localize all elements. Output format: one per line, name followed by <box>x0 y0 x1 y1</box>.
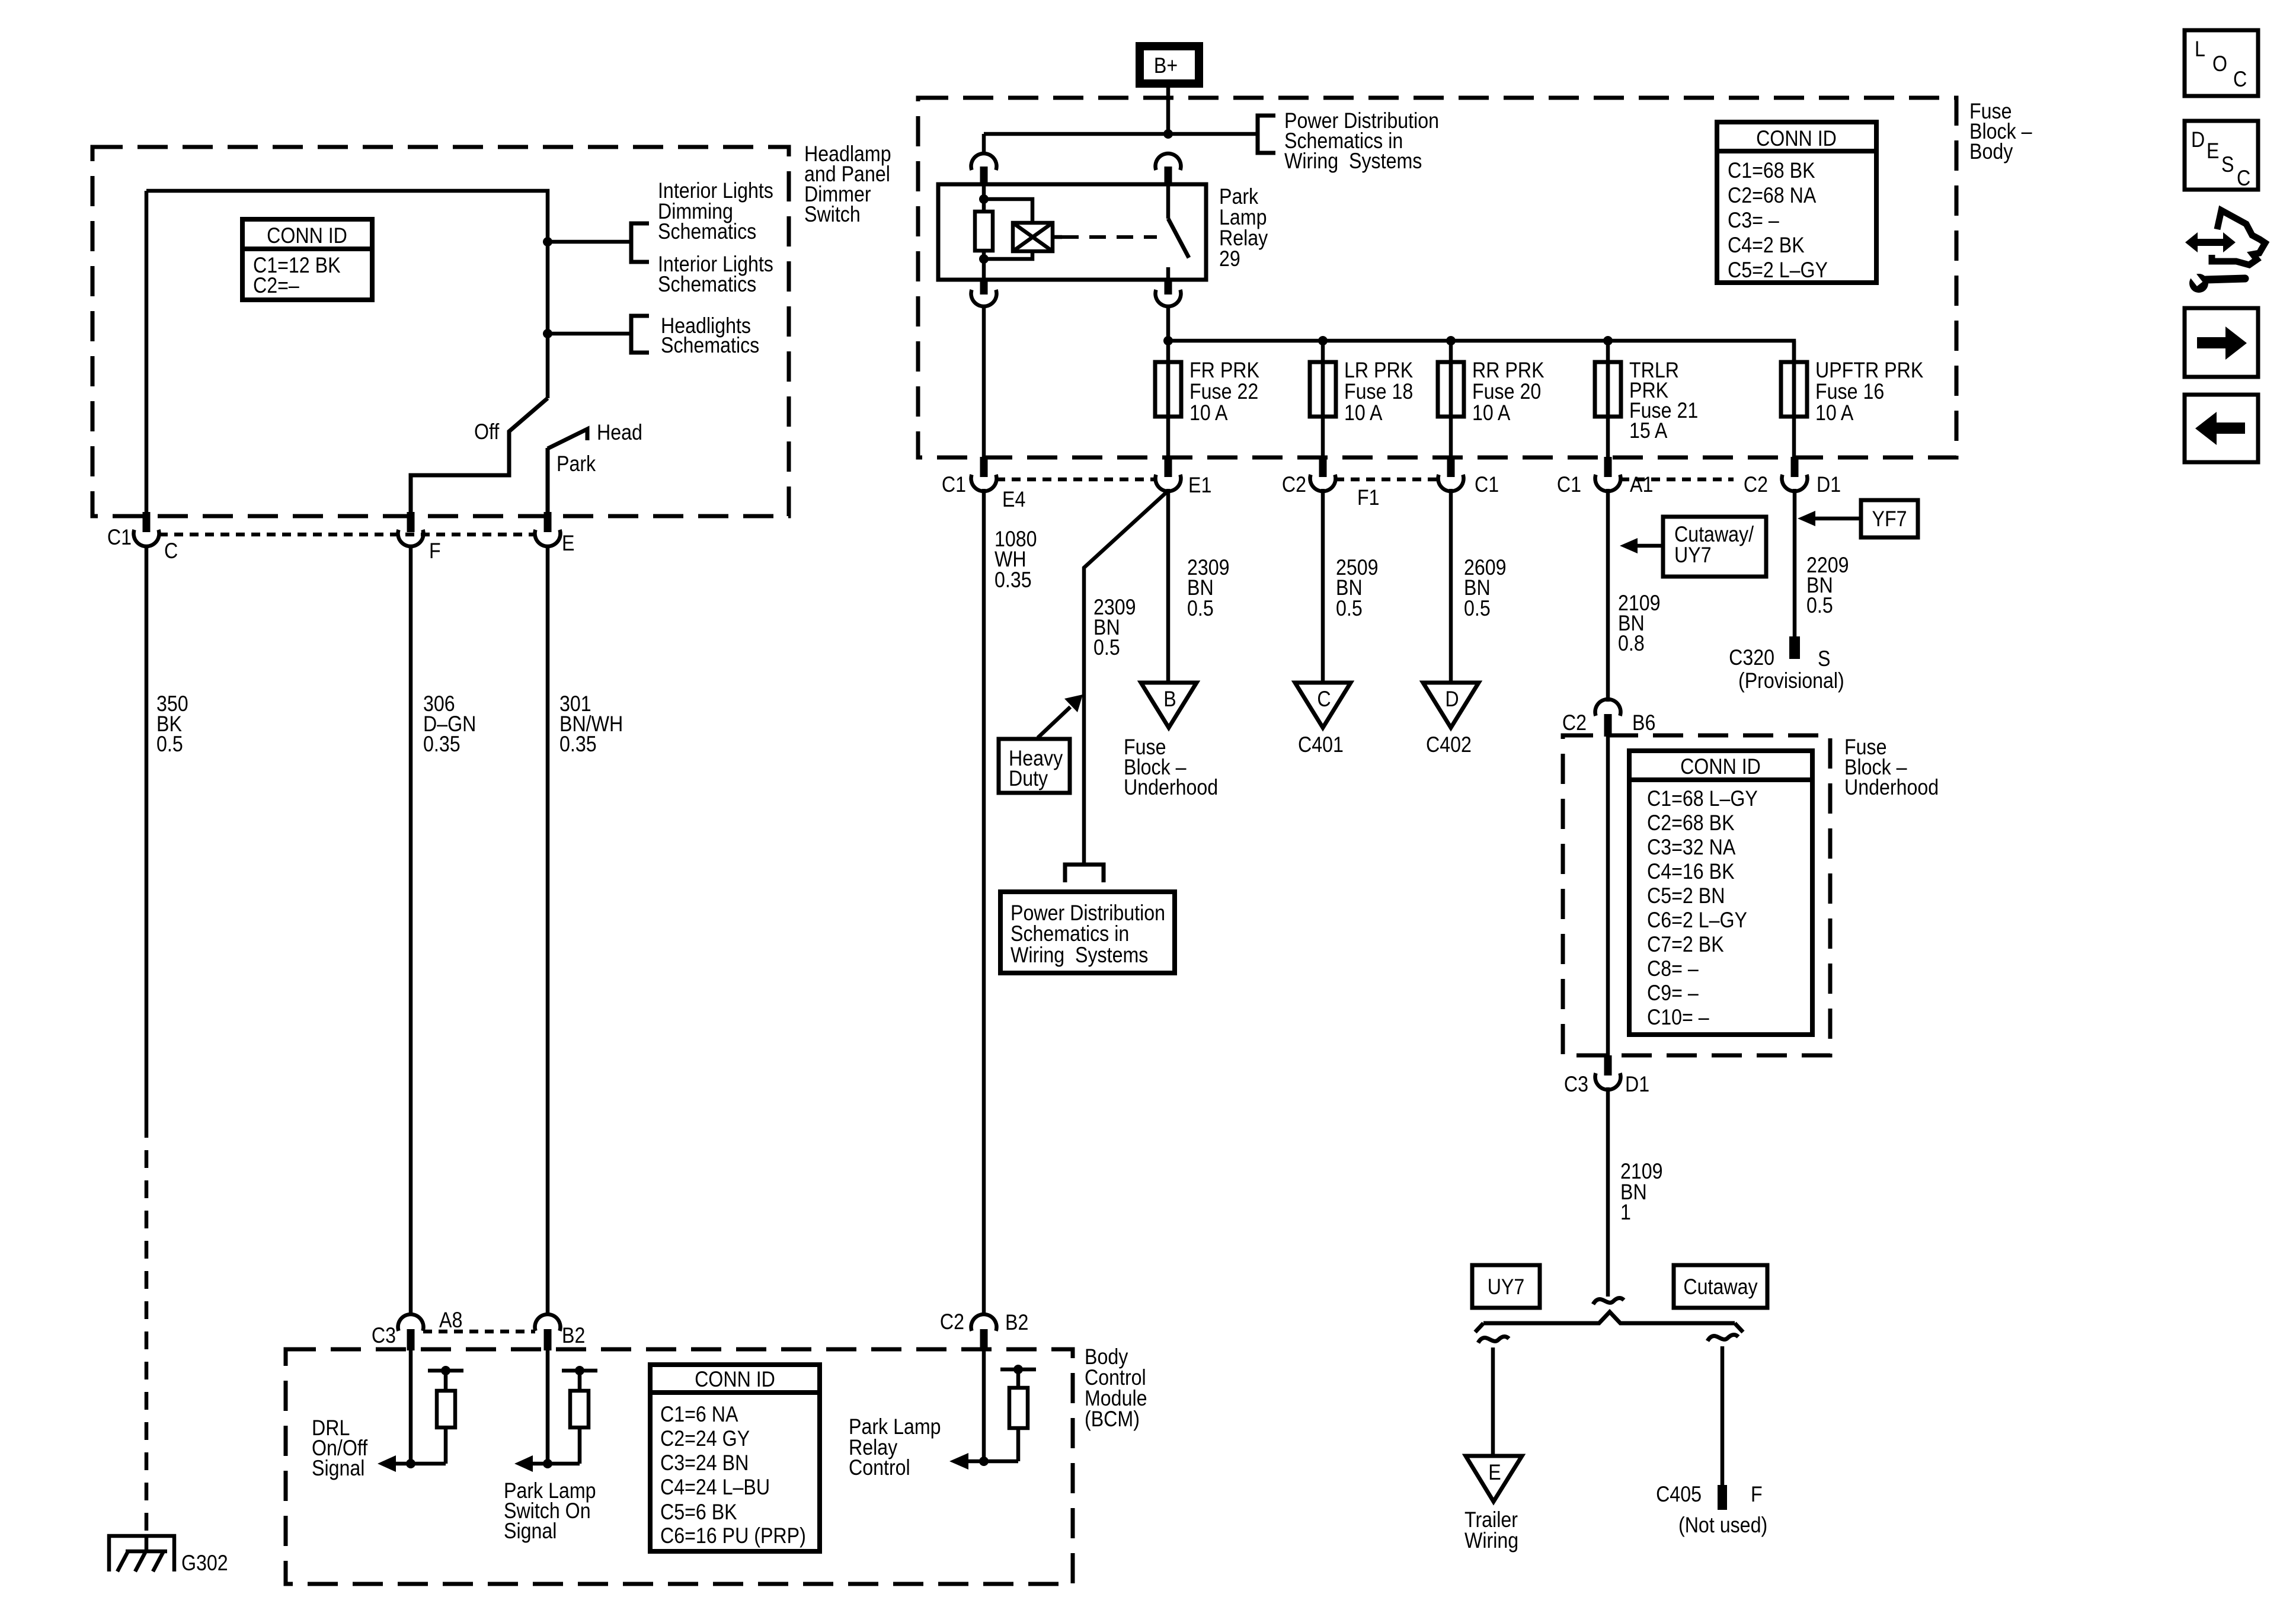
svg-text:C6=2 L–GY: C6=2 L–GY <box>1647 908 1747 933</box>
svg-text:C2=–: C2=– <box>253 274 299 298</box>
fuse RR PRK Fuse 20 10 A <box>1438 341 1544 457</box>
svg-text:Switch: Switch <box>804 203 861 227</box>
label: 2309 BN 0.5 (branch) <box>1093 596 1136 660</box>
connector cavity B2 <box>535 1314 561 1350</box>
wire: relay output right to fuse bus <box>1166 306 1171 341</box>
label: 2109 BN 1 <box>1620 1160 1663 1225</box>
svg-text:Schematics: Schematics <box>658 273 756 297</box>
off-page triangle D <box>1423 683 1479 728</box>
svg-text:E1: E1 <box>1188 473 1211 498</box>
svg-text:C2: C2 <box>1744 473 1768 497</box>
connector dashed line E4-E1 <box>996 478 1156 482</box>
connector C2 cavity F1 <box>1310 457 1336 491</box>
icon: part with arrows and wrench <box>2185 210 2265 293</box>
break symbol left branch <box>1478 1337 1509 1343</box>
label: 350 BK 0.5 <box>156 692 188 757</box>
node: junction to Headlights bracket <box>543 329 552 338</box>
CONN ID table (fuse block body) <box>1717 122 1876 283</box>
label: Park Lamp Switch On Signal <box>504 1479 596 1544</box>
svg-text:C1: C1 <box>1557 473 1581 497</box>
wire: 1080 WH from E4 to BCM C2/B2 <box>982 489 986 1316</box>
wire: 350 BK solid part <box>145 546 149 1120</box>
svg-text:Signal: Signal <box>504 1519 557 1544</box>
svg-text:C3= –: C3= – <box>1728 209 1779 233</box>
arrow: YF7 pointer <box>1798 511 1861 526</box>
Cutaway option box <box>1674 1265 1767 1308</box>
svg-text:0.8: 0.8 <box>1618 632 1645 656</box>
svg-text:C8= –: C8= – <box>1647 957 1699 981</box>
wire: top feed inside dimmer switch <box>146 191 548 398</box>
relay socket cavity (bottom left) <box>971 280 997 306</box>
svg-text:1: 1 <box>1620 1201 1631 1225</box>
node: junction to Interior Lights bracket <box>543 237 552 247</box>
off-page triangle B <box>1141 683 1197 728</box>
arrow: Cutaway/UY7 pointer <box>1620 538 1663 553</box>
svg-text:C: C <box>1317 687 1331 712</box>
YF7 callout box <box>1861 500 1918 537</box>
svg-text:C1: C1 <box>942 473 966 497</box>
svg-text:C1=6 NA: C1=6 NA <box>660 1403 738 1427</box>
svg-text:Wiring Systems: Wiring Systems <box>1284 149 1422 174</box>
svg-text:C: C <box>2233 68 2247 92</box>
wire: Cutaway branch to C405 <box>1721 1346 1725 1485</box>
svg-text:C401: C401 <box>1298 733 1344 757</box>
svg-text:(Not used): (Not used) <box>1678 1513 1767 1538</box>
label: DRL On/Off Signal <box>312 1416 368 1481</box>
svg-text:Off: Off <box>474 420 500 444</box>
svg-text:O: O <box>2212 52 2227 76</box>
bracket: power distribution reference <box>1258 116 1275 153</box>
connector C1 (RR PRK output) <box>1438 457 1464 491</box>
svg-text:C2=24 GY: C2=24 GY <box>660 1427 750 1451</box>
svg-text:D1: D1 <box>1625 1073 1649 1097</box>
CONN ID table (BCM) <box>650 1365 820 1551</box>
svg-text:10 A: 10 A <box>1189 401 1228 425</box>
connector C1 cavity E <box>535 512 561 546</box>
svg-text:E: E <box>2207 139 2219 164</box>
fuse UPFTR PRK Fuse 16 10 A <box>1781 341 1923 457</box>
Heavy Duty callout box <box>999 739 1070 793</box>
svg-text:C2: C2 <box>1562 711 1587 735</box>
Cutaway/UY7 callout box <box>1663 517 1766 577</box>
stub connector C405 F (Not used) <box>1656 1483 1767 1538</box>
svg-text:10 A: 10 A <box>1344 401 1383 425</box>
fuse LR PRK Fuse 18 10 A <box>1310 341 1413 457</box>
svg-text:C5=2 BN: C5=2 BN <box>1647 884 1725 908</box>
label: Park Lamp Relay 29 <box>1219 185 1268 271</box>
svg-text:D1: D1 <box>1817 473 1841 497</box>
svg-text:C3=24 BN: C3=24 BN <box>660 1451 749 1475</box>
svg-text:Cutaway: Cutaway <box>1683 1275 1758 1299</box>
svg-text:Wiring Systems: Wiring Systems <box>1011 943 1148 968</box>
label: 1080 WH 0.35 <box>994 527 1037 593</box>
svg-text:15 A: 15 A <box>1629 419 1668 443</box>
box: Power Distribution Schematics in Wiring Systems <box>1000 892 1175 973</box>
svg-text:CONN ID: CONN ID <box>695 1368 775 1392</box>
label: 2609 BN 0.5 <box>1464 556 1507 621</box>
svg-text:Schematics: Schematics <box>661 334 759 358</box>
connector C2 cavity B6 <box>1595 699 1621 737</box>
svg-text:F: F <box>429 539 441 564</box>
arrow: Heavy Duty pointer <box>1038 694 1083 738</box>
svg-text:C2: C2 <box>1282 473 1306 497</box>
off-page triangle C <box>1295 683 1351 728</box>
ground G302 <box>109 1536 174 1571</box>
svg-text:C320: C320 <box>1729 646 1774 670</box>
wire: relay output left to E4 <box>982 306 986 457</box>
label: Interior Lights Schematics <box>658 252 773 297</box>
svg-text:B6: B6 <box>1632 711 1655 735</box>
wire: left leg to connector C <box>145 191 149 513</box>
label: 2209 BN 0.5 <box>1806 553 1849 618</box>
svg-text:C2=68 BK: C2=68 BK <box>1647 811 1735 836</box>
svg-text:E4: E4 <box>1002 488 1025 512</box>
bracket: headlights schematics <box>631 316 649 353</box>
node: bus junction FR PRK <box>1163 336 1173 345</box>
svg-text:C4=2 BK: C4=2 BK <box>1728 233 1805 258</box>
node: bus junction RR PRK <box>1446 336 1456 345</box>
connector C1 cavity E4 <box>971 457 997 491</box>
relay box: Park Lamp Relay 29 <box>938 184 1206 280</box>
bracket: interior lights schematics pair <box>631 223 649 262</box>
svg-text:C9= –: C9= – <box>1647 981 1699 1006</box>
svg-text:RR PRK: RR PRK <box>1472 359 1544 383</box>
label: Fuse Block - Body <box>1969 100 2032 164</box>
relay solenoid (X in box) <box>1013 223 1053 251</box>
wire: 2209 BN from D1 to C320 <box>1793 489 1797 636</box>
svg-text:(Provisional): (Provisional) <box>1738 669 1844 693</box>
svg-text:Fuse 18: Fuse 18 <box>1344 380 1413 404</box>
node: bus junction TRLR PRK <box>1603 336 1613 345</box>
fuse TRLR PRK Fuse 21 15 A <box>1595 341 1698 457</box>
wire: 2309 BN branch to power distribution <box>1084 492 1167 863</box>
svg-text:D: D <box>2191 128 2205 152</box>
label: Park Lamp Relay Control <box>849 1415 941 1480</box>
icon: back arrow box <box>2185 395 2258 462</box>
svg-text:Head: Head <box>597 421 642 445</box>
label: Body Control Module (BCM) <box>1085 1345 1147 1432</box>
node: B+ bus junction <box>1163 129 1173 139</box>
svg-text:C405: C405 <box>1656 1483 1702 1507</box>
svg-text:F1: F1 <box>1357 486 1380 510</box>
stub connector C320 S (Provisional) <box>1729 636 1844 693</box>
wire: UY7 branch to trailer wiring <box>1491 1347 1495 1456</box>
wire: 2609 BN from RR to D triangle <box>1449 489 1453 683</box>
connector C1 cavity F <box>398 512 424 546</box>
connector C1 cavity E1 <box>1156 457 1181 491</box>
svg-text:0.5: 0.5 <box>1464 597 1491 621</box>
svg-text:S: S <box>2221 153 2234 177</box>
svg-text:CONN ID: CONN ID <box>1756 127 1837 151</box>
svg-text:B: B <box>1163 687 1176 712</box>
svg-text:29: 29 <box>1219 247 1240 271</box>
svg-text:Body: Body <box>1969 140 2013 164</box>
break symbol at wire end <box>1593 1298 1624 1305</box>
break symbol right branch <box>1707 1335 1738 1342</box>
icon: forward arrow box <box>2185 308 2258 377</box>
svg-text:C1=68 BK: C1=68 BK <box>1728 159 1815 183</box>
wire: to bracket 2 <box>548 332 631 336</box>
svg-text:0.5: 0.5 <box>1187 597 1214 621</box>
svg-text:10 A: 10 A <box>1815 401 1854 425</box>
svg-text:C6=16 PU (PRP): C6=16 PU (PRP) <box>660 1524 806 1548</box>
label: 301 BN/WH 0.35 <box>559 692 623 757</box>
svg-text:D: D <box>1445 687 1459 712</box>
svg-text:E: E <box>562 532 574 556</box>
dashed box: Fuse Block - Underhood <box>1563 735 1830 1055</box>
wire: 2309 BN from E1 to B triangle <box>1166 489 1171 683</box>
label: Interior Lights Dimming Schematics <box>658 179 773 244</box>
connector C2 cavity B2 (relay control) <box>971 1314 997 1350</box>
BCM input A8: DRL On/Off Signal <box>378 1349 463 1472</box>
svg-text:B+: B+ <box>1154 54 1178 78</box>
switch: Park contact wire <box>546 448 550 513</box>
svg-text:C5=6 BK: C5=6 BK <box>660 1500 737 1525</box>
svg-text:C3: C3 <box>1564 1073 1588 1097</box>
relay socket cavity (top left) <box>971 153 997 185</box>
wire: bus left leg down <box>982 134 986 155</box>
wire: 2509 BN from F1 to C triangle <box>1321 489 1325 683</box>
splice brace to UY7 / Cutaway branches <box>1475 1312 1743 1332</box>
relay socket cavity (bottom right) <box>1156 280 1181 306</box>
svg-text:Fuse 22: Fuse 22 <box>1189 380 1258 404</box>
svg-text:C4=24 L–BU: C4=24 L–BU <box>660 1475 770 1500</box>
svg-text:A8: A8 <box>439 1308 462 1333</box>
svg-text:(BCM): (BCM) <box>1085 1407 1140 1432</box>
svg-text:Park: Park <box>557 452 596 476</box>
svg-text:UY7: UY7 <box>1674 543 1712 568</box>
dashed box: Fuse Block - Body <box>918 98 1956 457</box>
svg-text:0.5: 0.5 <box>1093 636 1120 660</box>
svg-text:YF7: YF7 <box>1872 507 1907 532</box>
stub: power distribution continuation <box>1065 865 1104 882</box>
svg-text:C: C <box>2237 167 2250 191</box>
icon: DESC box <box>2185 121 2258 191</box>
label: Fuse Block - Underhood <box>1844 735 1939 800</box>
svg-text:0.35: 0.35 <box>994 568 1032 593</box>
svg-text:Fuse 16: Fuse 16 <box>1815 380 1884 404</box>
svg-text:B2: B2 <box>1005 1311 1028 1335</box>
connector dashed line F1-C1 <box>1335 478 1438 482</box>
label: Power Distribution Schematics in Wiring Systems (top) <box>1284 109 1439 174</box>
label: Headlights Schematics <box>661 314 759 358</box>
CONN ID table (fuse block underhood) <box>1629 751 1812 1035</box>
connector dashed line row 1 <box>159 533 535 537</box>
label: 2509 BN 0.5 <box>1336 556 1379 621</box>
svg-text:CONN ID: CONN ID <box>1680 755 1761 779</box>
svg-text:0.35: 0.35 <box>423 732 461 757</box>
wire: 2109 BN from A1 to B6 <box>1606 489 1610 702</box>
label: Fuse Block - Underhood (B) <box>1124 735 1218 800</box>
UY7 option box <box>1472 1265 1540 1308</box>
svg-text:10 A: 10 A <box>1472 401 1511 425</box>
svg-text:S: S <box>1818 647 1830 671</box>
wire: 301 BN/WH <box>546 546 550 1316</box>
connector C2 cavity D1 <box>1782 457 1808 491</box>
wire: B+ feed <box>1166 88 1171 134</box>
wire: 350 BK dashed part <box>145 1120 149 1536</box>
svg-text:C1: C1 <box>1475 473 1499 497</box>
svg-text:C3: C3 <box>372 1324 396 1348</box>
svg-text:G302: G302 <box>181 1551 228 1576</box>
wire: to bracket 1 <box>548 240 631 244</box>
svg-text:C2=68 NA: C2=68 NA <box>1728 184 1817 208</box>
svg-text:0.5: 0.5 <box>1806 594 1833 618</box>
svg-text:C7=2 BK: C7=2 BK <box>1647 933 1724 957</box>
fuse FR PRK Fuse 22 10 A <box>1155 341 1259 457</box>
svg-text:C5=2 L–GY: C5=2 L–GY <box>1728 258 1828 283</box>
svg-text:Schematics: Schematics <box>658 220 756 244</box>
node: bus junction LR PRK <box>1318 336 1328 345</box>
svg-text:Wiring: Wiring <box>1464 1529 1518 1553</box>
svg-text:L: L <box>2195 37 2205 62</box>
svg-text:C1: C1 <box>107 526 132 550</box>
connector C3 cavity D1 <box>1595 1055 1621 1090</box>
wire: through fuse block underhood <box>1606 735 1610 1055</box>
svg-text:0.5: 0.5 <box>1336 597 1363 621</box>
svg-text:C402: C402 <box>1426 733 1472 757</box>
label: Trailer Wiring <box>1464 1508 1518 1553</box>
svg-text:0.5: 0.5 <box>156 732 183 757</box>
label: 306 D-GN 0.35 <box>423 692 476 757</box>
svg-text:C4=16 BK: C4=16 BK <box>1647 860 1735 884</box>
svg-text:F: F <box>1751 1483 1763 1507</box>
BCM output: Park Lamp Relay Control <box>949 1349 1036 1470</box>
wire: 306 D-GN <box>409 546 413 1316</box>
label: 2309 BN 0.5 (E1) <box>1187 556 1230 621</box>
BCM input B2: Park Lamp Switch On Signal <box>514 1349 597 1472</box>
svg-text:C3=32 NA: C3=32 NA <box>1647 836 1736 860</box>
switch: headlamp switch blade (Off position) <box>411 398 548 513</box>
svg-text:C1=68 L–GY: C1=68 L–GY <box>1647 787 1758 811</box>
dashed box: Body Control Module <box>286 1349 1073 1584</box>
svg-text:E: E <box>1488 1461 1501 1485</box>
svg-text:A1: A1 <box>1630 473 1653 497</box>
label: Headlamp and Panel Dimmer Switch <box>804 142 891 227</box>
B+ power symbol <box>1140 46 1199 84</box>
svg-text:0.35: 0.35 <box>559 732 597 757</box>
off-page triangle E <box>1466 1456 1522 1502</box>
svg-text:FR PRK: FR PRK <box>1189 359 1259 383</box>
svg-text:UPFTR PRK: UPFTR PRK <box>1815 359 1923 383</box>
svg-text:Schematics in: Schematics in <box>1011 922 1129 946</box>
svg-text:Duty: Duty <box>1009 767 1048 791</box>
wire: fuse bus <box>1168 341 1794 362</box>
svg-text:B2: B2 <box>562 1324 585 1348</box>
svg-text:C2: C2 <box>940 1310 964 1334</box>
connector C1 cavity A1 <box>1595 457 1621 491</box>
CONN ID table (dimmer switch) <box>242 219 372 300</box>
connector dashed line A8-B2 <box>423 1330 535 1334</box>
connector dashed line A1-D1 <box>1620 478 1734 482</box>
switch: Head position tick <box>548 429 587 449</box>
svg-text:CONN ID: CONN ID <box>267 224 347 248</box>
connector C3 cavity A8 <box>398 1314 424 1350</box>
relay actuator dashed link <box>1053 235 1157 239</box>
svg-text:Control: Control <box>849 1456 910 1480</box>
svg-text:Underhood: Underhood <box>1844 776 1939 800</box>
label: 2109 BN 0.8 <box>1618 591 1661 656</box>
relay socket cavity (top right) <box>1156 153 1181 185</box>
svg-text:UY7: UY7 <box>1488 1275 1525 1299</box>
connector C1 cavity C <box>134 512 159 546</box>
svg-text:Signal: Signal <box>312 1457 364 1481</box>
dashed box: Headlamp and Panel Dimmer Switch <box>92 147 789 516</box>
relay switch contact <box>1168 184 1189 280</box>
svg-text:Fuse 20: Fuse 20 <box>1472 380 1541 404</box>
svg-text:C: C <box>164 539 178 564</box>
wire: bus to relay and power distribution <box>984 132 1258 136</box>
svg-text:LR PRK: LR PRK <box>1344 359 1413 383</box>
icon: LOC box <box>2185 30 2258 96</box>
svg-text:C10= –: C10= – <box>1647 1006 1709 1030</box>
svg-text:Underhood: Underhood <box>1124 776 1218 800</box>
relay coil circuit <box>975 184 1032 280</box>
wire: 2109 BN 1 below underhood <box>1606 1087 1610 1297</box>
